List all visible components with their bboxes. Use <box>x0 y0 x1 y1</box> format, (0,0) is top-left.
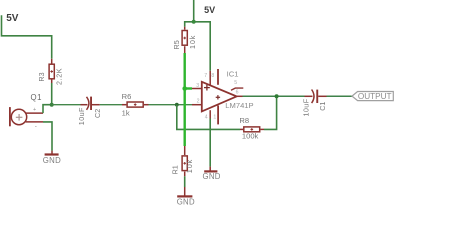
svg-text:4: 4 <box>205 114 208 120</box>
svg-text:IC1: IC1 <box>227 70 239 79</box>
wire node A to C2 <box>52 104 81 106</box>
wire bias net (bright) R5 to R1 <box>185 53 192 146</box>
wire mic minus to GND <box>43 122 52 151</box>
wire op-amp output to C1 <box>243 95 305 97</box>
ground GND2 (R1) <box>177 187 195 207</box>
svg-text:3: 3 <box>196 83 199 89</box>
svg-text:1k: 1k <box>122 109 130 118</box>
resistor R8 <box>239 116 264 140</box>
svg-text:2.2K: 2.2K <box>54 68 63 85</box>
node C junction (5V) <box>192 20 196 24</box>
svg-text:C2: C2 <box>93 109 102 118</box>
svg-text:R8: R8 <box>239 116 249 125</box>
svg-text:R3: R3 <box>37 72 46 81</box>
svg-text:6: 6 <box>236 89 239 95</box>
wire R6 to op-amp inverting input <box>149 104 193 106</box>
svg-text:100k: 100k <box>242 131 259 140</box>
supply 5V center <box>204 5 215 15</box>
svg-text:OUTPUT: OUTPUT <box>358 92 392 101</box>
microphone Q1 <box>9 93 43 130</box>
wire op-amp pin4 to GND <box>209 119 211 167</box>
svg-text:Q1: Q1 <box>31 93 42 102</box>
capacitor C1 <box>302 90 327 117</box>
node B junction (inverting input net) <box>175 103 179 107</box>
node E junction (output) <box>275 94 279 98</box>
resistor R1 <box>171 146 194 176</box>
svg-text:GND: GND <box>177 198 195 207</box>
svg-text:5V: 5V <box>204 5 215 15</box>
svg-text:5V: 5V <box>6 13 19 24</box>
svg-text:10uF: 10uF <box>302 98 311 116</box>
svg-text:GND: GND <box>43 156 61 165</box>
svg-text:R5: R5 <box>172 40 181 49</box>
svg-text:1: 1 <box>213 114 216 120</box>
resistor R6 <box>122 92 149 118</box>
wire node B down to feedback line <box>177 105 240 130</box>
svg-text:5: 5 <box>234 80 237 86</box>
node D junction (bias, bright) <box>182 86 187 91</box>
wire 5V rail to R5 and pin7 <box>185 0 211 71</box>
svg-text:GND: GND <box>203 172 221 181</box>
supply 5V left <box>6 13 19 24</box>
svg-text:+: + <box>33 107 36 113</box>
ground GND1 (mic) <box>43 151 61 165</box>
resistor R5 <box>172 27 197 53</box>
svg-text:10uF: 10uF <box>77 107 86 125</box>
svg-text:10k: 10k <box>188 35 197 49</box>
svg-text:8: 8 <box>211 73 214 79</box>
capacitor C2 <box>77 97 102 126</box>
svg-text:R1: R1 <box>171 165 180 174</box>
wire C1 to OUTPUT flag <box>327 95 353 97</box>
svg-text:-: - <box>35 123 37 130</box>
svg-text:C1: C1 <box>318 102 327 111</box>
wire C2 to R6 <box>100 104 122 106</box>
net flag OUTPUT <box>352 92 393 102</box>
wire R3 to node A <box>51 83 53 105</box>
ground GND3 (op-amp) <box>203 167 221 181</box>
node A junction <box>50 103 54 107</box>
svg-text:R6: R6 <box>122 92 132 101</box>
wire mic plus to node A <box>43 105 52 113</box>
wire R8 to output node <box>264 96 277 129</box>
resistor R3 <box>37 59 63 85</box>
op-amp IC1 LM741P <box>192 69 254 124</box>
wire 5V-left to R3 <box>2 15 52 59</box>
wire R1 to GND <box>184 176 186 187</box>
svg-text:10k: 10k <box>185 159 194 173</box>
svg-text:7: 7 <box>204 73 207 79</box>
svg-text:2: 2 <box>197 98 200 104</box>
svg-text:LM741P: LM741P <box>225 101 253 110</box>
